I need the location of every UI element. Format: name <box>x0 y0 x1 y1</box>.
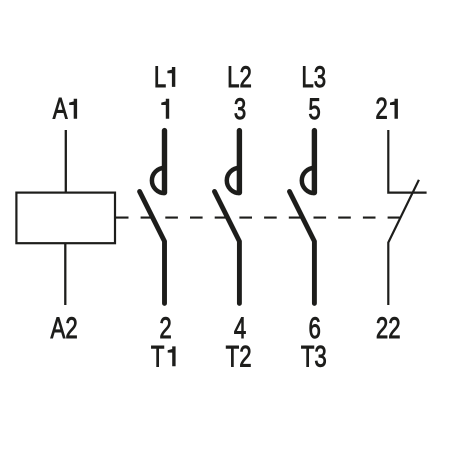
svg-text:5: 5 <box>308 92 320 126</box>
svg-text:T: T <box>151 339 165 373</box>
svg-text:L3: L3 <box>301 60 326 94</box>
svg-text:L: L <box>154 60 166 94</box>
svg-text:22: 22 <box>376 311 401 345</box>
svg-text:T3: T3 <box>301 339 327 373</box>
svg-text:A: A <box>53 91 68 125</box>
svg-text:A2: A2 <box>51 311 78 345</box>
svg-text:L2: L2 <box>227 60 252 94</box>
svg-text:3: 3 <box>234 92 246 126</box>
svg-text:2: 2 <box>375 91 387 125</box>
svg-text:T2: T2 <box>226 339 252 373</box>
